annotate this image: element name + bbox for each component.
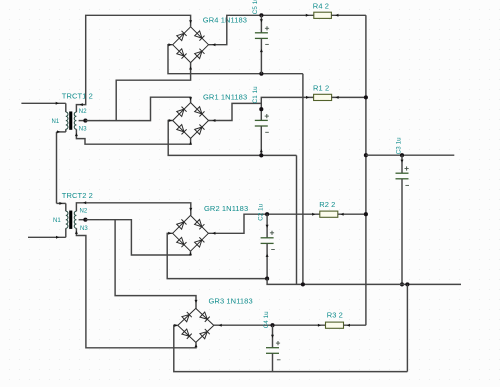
- diode GR4.D1 (left-top edge): [173, 27, 191, 45]
- diode GR1.D4 (bottom-right edge): [191, 121, 209, 139]
- node R1/bus junction: [364, 95, 368, 99]
- wire TRCT1 N2 to GR4 top vertex: [76, 15, 192, 112]
- wire R3 right to bus bottom: [344, 324, 366, 327]
- wire GR2 left vertex to C2 minus: [167, 232, 267, 279]
- capacitor C5 1u: [255, 15, 269, 73]
- wire R2 right to bus: [338, 213, 366, 216]
- diode GR2.D2 (top-right edge): [191, 215, 209, 233]
- label TRCT2: [62, 191, 93, 200]
- label TRCT1 N1: [52, 119, 60, 125]
- svg-text:GR1 1N1183: GR1 1N1183: [203, 93, 247, 102]
- wire TRCT1 center tap to GR1 top vertex: [85, 97, 192, 120]
- node C1 plus junction: [259, 107, 263, 111]
- svg-text:C2 1u: C2 1u: [257, 203, 264, 220]
- svg-text:TRCT1 2: TRCT1 2: [62, 91, 93, 100]
- diode GR1.D1 (left-top edge): [173, 103, 191, 121]
- label TRCT2 N1: [53, 218, 61, 224]
- wire GR1 minus down to ground rail: [296, 155, 298, 284]
- node C2 plus junction: [265, 212, 269, 216]
- capacitor C1 1u: [255, 114, 269, 155]
- diode GR3.D1 (left-top edge): [178, 308, 196, 325]
- svg-text:C3 1u: C3 1u: [395, 137, 402, 154]
- node C2 minus junction: [265, 277, 269, 281]
- wire R1 left corner down to C1: [261, 96, 313, 121]
- wire DC output plus: [366, 154, 454, 156]
- transformer TRCT2 core: [69, 211, 72, 229]
- label TRCT1 N3: [79, 127, 87, 133]
- label C3 1u: [395, 137, 402, 154]
- wire GR4 left vertex to C5 minus rail: [168, 43, 303, 73]
- diode GR3.D2 (top-right edge): [196, 308, 214, 325]
- svg-text:N2: N2: [80, 208, 88, 214]
- label GR2: [204, 204, 248, 213]
- resistor R1: [314, 94, 332, 100]
- svg-text:N2: N2: [79, 109, 87, 115]
- svg-text:N1: N1: [53, 218, 61, 224]
- transformer TRCT2 primary winding N1: [66, 211, 68, 228]
- node C5/R4 junction: [259, 13, 263, 17]
- transformer TRCT2 center tap: [79, 218, 88, 222]
- resistor R4: [314, 12, 332, 18]
- svg-text:R2 2: R2 2: [319, 200, 335, 209]
- diode GR2.D1 (left-top edge): [173, 215, 191, 233]
- transformer TRCT1 core: [69, 111, 72, 129]
- diode GR2.D3 (left-bottom edge): [173, 233, 191, 251]
- diode GR1.D3 (left-bottom edge): [173, 121, 191, 139]
- wire TRCT2 center tap branch to GR3 top vertex: [115, 220, 197, 309]
- svg-text:R1 2: R1 2: [313, 83, 329, 92]
- label GR1: [203, 93, 247, 102]
- label TRCT2 N3: [80, 226, 88, 232]
- svg-text:GR4 1N1183: GR4 1N1183: [203, 16, 247, 25]
- node C5 minus junction: [259, 72, 263, 76]
- diode GR4.D2 (top-right edge): [191, 27, 209, 45]
- svg-text:N3: N3: [80, 226, 88, 232]
- svg-text:N1: N1: [52, 119, 60, 125]
- label C2 1u: [257, 203, 264, 220]
- wire TRCT2 center tap to GR2 bottom vertex: [85, 220, 192, 256]
- node C3 plus junction: [400, 153, 404, 157]
- label GR4: [203, 16, 247, 25]
- label C5 1u: [252, 0, 259, 14]
- label TRCT1 N2: [79, 109, 87, 115]
- label TRCT1: [62, 91, 93, 100]
- diode GR2.D4 (bottom-right edge): [191, 233, 209, 251]
- node ground rail / bottom return: [405, 282, 409, 286]
- label TRCT2 N2: [80, 208, 88, 214]
- svg-text:C5 1u: C5 1u: [252, 0, 259, 14]
- label R1 2: [313, 83, 329, 92]
- transformer TRCT1 primary winding N1: [66, 112, 68, 129]
- wire GR4 minus down to ground rail: [302, 74, 304, 285]
- wire GR3 right vertex to R3: [214, 324, 326, 327]
- wire TRCT2 N1 top pin: [57, 202, 66, 211]
- label C1 1u: [252, 86, 259, 103]
- label R3 2: [327, 311, 343, 320]
- svg-text:C1 1u: C1 1u: [252, 86, 259, 103]
- transformer TRCT1 center tap: [79, 119, 88, 123]
- wire GR4 right vertex to R4: [209, 14, 314, 46]
- wire bottom rail up to ground rail: [406, 284, 408, 371]
- wire primary link TRCT1-TRCT2: [56, 132, 58, 204]
- label R4 2: [313, 2, 329, 11]
- wire GR1 right vertex riser: [209, 103, 262, 122]
- wire TRCT1 N3 to GR1 bottom vertex: [75, 129, 192, 144]
- svg-text:R4 2: R4 2: [313, 2, 329, 11]
- node R2/bus junction: [364, 212, 368, 216]
- wire center tap branch to GR4 bottom vertex: [116, 63, 192, 121]
- diode GR1.D2 (top-right edge): [191, 103, 209, 121]
- wire GR3 left vertex to bottom rail: [174, 324, 408, 372]
- diode GR4.D4 (bottom-right edge): [191, 45, 209, 63]
- node C1 minus junction: [259, 153, 263, 157]
- wire GR2 right vertex riser to R2: [208, 213, 319, 235]
- wire R4 right to bus: [331, 14, 366, 17]
- svg-text:GR3 1N1183: GR3 1N1183: [209, 296, 253, 305]
- node C4 plus junction: [270, 323, 274, 327]
- transformer TRCT2 secondary winding N2/N3: [74, 211, 76, 228]
- capacitor C3 1u: [396, 155, 410, 284]
- label R2 2: [319, 200, 335, 209]
- wire TRCT2 N2 to GR2 top vertex: [76, 201, 192, 215]
- node C3 minus junction: [400, 282, 404, 286]
- wire R1 right to bus: [332, 96, 366, 99]
- wire ground rail: [267, 279, 461, 285]
- label GR3: [209, 296, 253, 305]
- capacitor C4 1u: [266, 325, 281, 371]
- wire TRCT1 N1 top pin (AC input stub): [21, 102, 65, 112]
- resistor R2: [320, 211, 338, 217]
- svg-text:GR2 1N1183: GR2 1N1183: [204, 204, 248, 213]
- node bus/output junction: [364, 153, 368, 157]
- svg-text:R3 2: R3 2: [327, 311, 343, 320]
- svg-text:TRCT2 2: TRCT2 2: [62, 191, 93, 200]
- svg-text:C4 1u: C4 1u: [263, 311, 270, 328]
- capacitor C2 1u: [261, 214, 275, 278]
- transformer TRCT1 secondary winding N2/N3: [74, 112, 76, 129]
- node ground rail / GR4 minus: [301, 282, 305, 286]
- wire TRCT2 N3 to GR3 bottom vertex: [75, 228, 198, 347]
- svg-text:N3: N3: [79, 127, 87, 133]
- wire TRCT2 N1 bottom pin (AC input stub): [28, 228, 66, 239]
- diode GR3.D3 (left-bottom edge): [178, 325, 196, 342]
- label C4 1u: [263, 311, 270, 328]
- diode GR4.D3 (left-bottom edge): [173, 45, 191, 63]
- resistor R3: [326, 322, 344, 328]
- wire GR1 left vertex to C1 minus: [168, 119, 296, 155]
- wire output bus vertical: [365, 15, 367, 325]
- wire TRCT1 N1 bottom pin: [57, 129, 66, 133]
- diode GR3.D4 (bottom-right edge): [196, 325, 214, 342]
